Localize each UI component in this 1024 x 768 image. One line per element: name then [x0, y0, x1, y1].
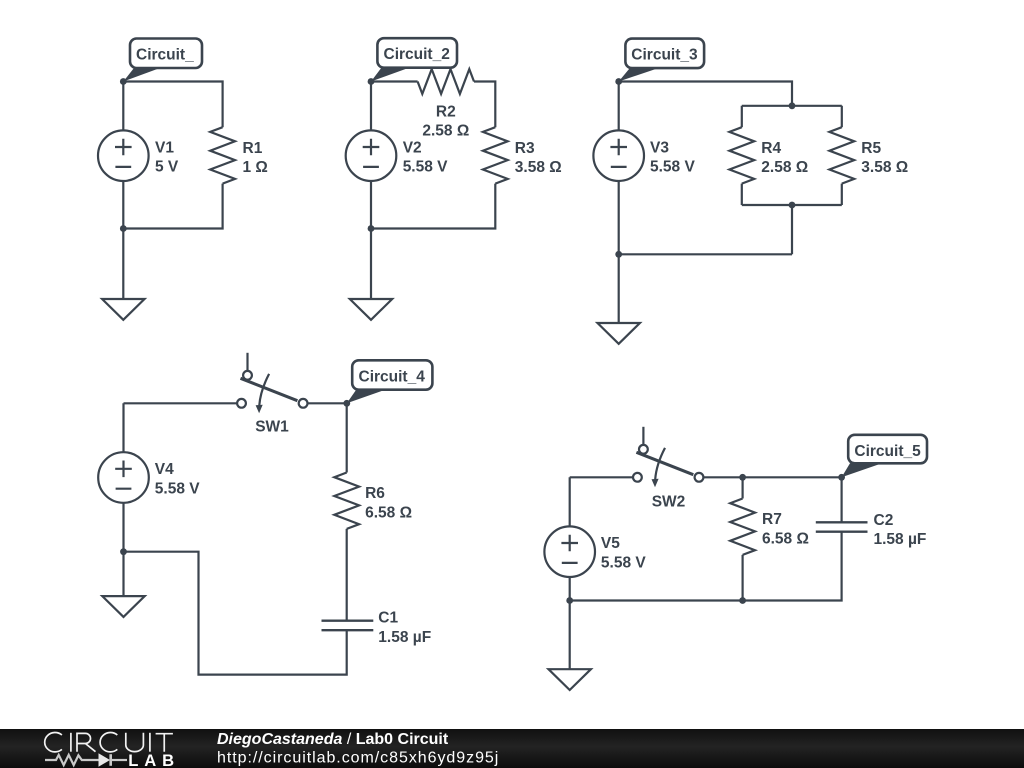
svg-text:5 V: 5 V [155, 159, 179, 176]
svg-text:1 Ω: 1 Ω [243, 159, 268, 176]
svg-text:R1: R1 [243, 140, 263, 157]
svg-text:R6: R6 [365, 485, 385, 502]
svg-text:C2: C2 [874, 512, 894, 529]
svg-text:LAB: LAB [128, 751, 180, 768]
svg-text:5.58 V: 5.58 V [155, 480, 200, 497]
svg-text:2.58 Ω: 2.58 Ω [761, 159, 808, 176]
svg-text:3.58 Ω: 3.58 Ω [861, 159, 908, 176]
svg-text:V2: V2 [403, 139, 422, 156]
svg-text:5.58 V: 5.58 V [601, 555, 646, 572]
svg-text:http://circuitlab.com/c85xh6yd: http://circuitlab.com/c85xh6yd9z95j [217, 750, 499, 767]
svg-text:1.58 µF: 1.58 µF [378, 629, 431, 646]
svg-text:V1: V1 [155, 139, 174, 156]
svg-text:Circuit_2: Circuit_2 [384, 46, 450, 63]
svg-text:V5: V5 [601, 535, 620, 552]
svg-text:SW2: SW2 [652, 494, 686, 511]
svg-text:V3: V3 [650, 139, 669, 156]
svg-text:5.58 V: 5.58 V [650, 159, 695, 176]
svg-text:SW1: SW1 [255, 418, 289, 435]
svg-text:R5: R5 [861, 140, 881, 157]
svg-text:Circuit_4: Circuit_4 [359, 369, 426, 386]
svg-text:R7: R7 [762, 511, 782, 528]
svg-text:6.58 Ω: 6.58 Ω [365, 505, 412, 522]
svg-text:Circuit_3: Circuit_3 [631, 47, 698, 64]
svg-text:R3: R3 [515, 140, 535, 157]
svg-text:3.58 Ω: 3.58 Ω [515, 159, 562, 176]
svg-text:R2: R2 [436, 103, 456, 120]
svg-text:V4: V4 [155, 461, 174, 478]
svg-text:1.58 µF: 1.58 µF [874, 531, 927, 548]
svg-text:6.58 Ω: 6.58 Ω [762, 531, 809, 548]
svg-text:Circuit_5: Circuit_5 [854, 443, 921, 460]
svg-text:R4: R4 [761, 140, 781, 157]
svg-text:C1: C1 [378, 610, 398, 627]
svg-text:5.58 V: 5.58 V [403, 159, 448, 176]
svg-text:2.58 Ω: 2.58 Ω [422, 123, 469, 140]
svg-text:DiegoCastaneda / Lab0 Circuit: DiegoCastaneda / Lab0 Circuit [217, 731, 449, 748]
svg-text:Circuit_: Circuit_ [136, 47, 194, 64]
